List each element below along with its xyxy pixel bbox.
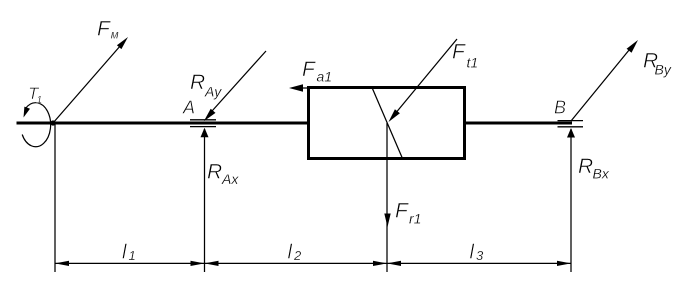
dimension line (55, 262, 571, 264)
svg-text:F: F (452, 41, 466, 64)
svg-text:Ax: Ax (221, 171, 239, 187)
label A (182, 98, 195, 118)
extension line at left end (54, 123, 56, 272)
label R_Ax (207, 161, 239, 188)
dimension arrows l3 (387, 261, 571, 266)
svg-text:Bx: Bx (593, 166, 610, 182)
bearing B support lines (558, 121, 584, 127)
shaft left segment (17, 122, 310, 125)
label F_M (97, 18, 119, 42)
svg-text:F: F (395, 200, 409, 223)
svg-text:R: R (207, 161, 222, 184)
force F_a1 (axial, arrow left at gear top-left corner) (289, 84, 309, 92)
svg-text:F: F (97, 18, 111, 41)
shaft right segment (464, 122, 572, 125)
svg-text:м: м (111, 30, 119, 42)
label F_a1 (302, 58, 332, 85)
torque T1 curved arrow (22, 103, 50, 147)
force F_r1 (radial, vertical down from gear centre) + extension line (384, 123, 390, 272)
svg-text:1: 1 (37, 95, 43, 106)
label R_Bx (578, 155, 610, 182)
force F_M (coupling force) (53, 37, 128, 123)
dimension arrows l1 (55, 261, 205, 266)
svg-text:Ay: Ay (204, 84, 222, 100)
dimension arrows l2 (205, 261, 388, 266)
svg-text:B: B (554, 98, 566, 118)
svg-text:a1: a1 (317, 69, 333, 85)
reaction R_By (diagonal arrow up-right from B) (571, 40, 638, 121)
svg-text:A: A (182, 98, 195, 118)
svg-text:2: 2 (293, 248, 302, 263)
label l1 (122, 242, 136, 264)
force F_t1 (tangential, arrow to gear centre) (389, 39, 458, 122)
svg-text:By: By (655, 62, 672, 78)
svg-text:r1: r1 (409, 211, 421, 227)
label T1 (28, 84, 42, 106)
label F_t1 (452, 41, 478, 71)
svg-text:l: l (122, 242, 127, 264)
svg-text:3: 3 (476, 248, 484, 263)
svg-text:R: R (578, 155, 593, 178)
reaction R_Bx (vertical arrow up into B) + extension line at B (567, 128, 575, 272)
svg-text:l: l (470, 242, 475, 264)
gear mesh (pressure) line (372, 88, 403, 159)
svg-text:F: F (302, 58, 316, 81)
svg-text:l: l (288, 242, 293, 264)
gear (rectangle) (309, 88, 465, 159)
reaction R_Ay (diagonal arrow into A) (204, 51, 266, 121)
node: force application point at shaft left end (50, 120, 55, 125)
svg-text:t1: t1 (467, 55, 479, 71)
reaction R_Ax (vertical arrow up into A) + extension line at A (201, 128, 209, 272)
bearing A support lines (190, 120, 216, 127)
svg-text:1: 1 (129, 248, 136, 263)
label R_Ay (190, 71, 222, 100)
label l2 (288, 242, 303, 264)
label F_r1 (395, 200, 421, 227)
label l3 (470, 242, 485, 264)
label R_By (643, 50, 672, 78)
svg-text:R: R (190, 71, 205, 94)
label B (554, 98, 566, 118)
